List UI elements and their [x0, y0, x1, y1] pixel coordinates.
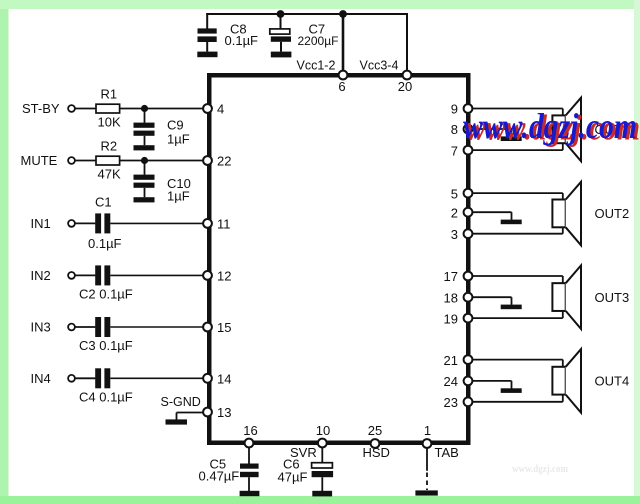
svg-text:IN1: IN1 — [31, 216, 51, 231]
op-amp IC U1 body (quad power amplifier) — [209, 75, 468, 443]
wire pin 19 to speaker OUT3 — [472, 317, 563, 319]
wire IN4 to C4 — [75, 377, 95, 379]
svg-text:8: 8 — [451, 122, 458, 137]
speaker OUT1 — [552, 115, 565, 143]
svg-text:OUT2: OUT2 — [595, 206, 630, 221]
capacitor C3 — [95, 317, 101, 337]
svg-text:16: 16 — [243, 423, 257, 438]
wire pin 2 to ground — [472, 211, 512, 213]
wire R2 to pin 22 — [120, 160, 204, 162]
top green page border — [0, 0, 640, 9]
svg-text:OUT3: OUT3 — [595, 290, 630, 305]
svg-text:0.1µF: 0.1µF — [225, 33, 259, 48]
pin 16 — [245, 439, 254, 448]
svg-text:6: 6 — [338, 79, 345, 94]
svg-text:25: 25 — [368, 423, 382, 438]
svg-text:R2: R2 — [101, 139, 118, 154]
speaker OUT4 — [552, 367, 565, 395]
svg-text:www.dgzj.com: www.dgzj.com — [512, 463, 568, 475]
wire pin 13 to S-GND ground — [177, 412, 205, 414]
svg-text:10K: 10K — [98, 115, 121, 130]
capacitor C8 — [198, 28, 217, 33]
pin 14 — [203, 374, 212, 383]
node junction R2/C10 — [141, 157, 148, 164]
wire top supply bus — [206, 13, 408, 15]
svg-text:3: 3 — [451, 227, 458, 242]
pin 11 — [203, 219, 212, 228]
svg-text:13: 13 — [217, 405, 231, 420]
pin 20 — [403, 71, 412, 80]
svg-text:21: 21 — [444, 353, 458, 368]
ground (OUT1 center tap) — [501, 136, 522, 141]
svg-text:18: 18 — [444, 290, 458, 305]
wire C7 top lead — [280, 14, 282, 29]
node junction R1/C9 — [141, 105, 148, 112]
wire speaker OUT3 vertical tie — [562, 276, 564, 318]
pin 7 — [464, 146, 473, 155]
svg-text:IN2: IN2 — [31, 268, 51, 283]
svg-text:2200µF: 2200µF — [298, 34, 339, 48]
ground S-GND — [166, 419, 188, 424]
pin 9 — [464, 104, 473, 113]
pin 3 — [464, 229, 473, 238]
svg-text:IN4: IN4 — [31, 371, 51, 386]
svg-text:47K: 47K — [98, 167, 121, 182]
svg-text:23: 23 — [444, 395, 458, 410]
ground (OUT4 center tap) — [501, 388, 522, 393]
pin 8 — [464, 125, 473, 134]
capacitor C5 — [240, 464, 259, 469]
wire C8 top lead — [206, 13, 208, 28]
wire from supply bus down to pin 20 — [406, 15, 408, 72]
pin 17 — [464, 272, 473, 281]
pin 15 — [203, 323, 212, 332]
ground (OUT3 center tap) — [501, 305, 522, 310]
wire from supply bus down to pin 6 — [342, 14, 345, 72]
pin 6 — [339, 71, 348, 80]
wire pin 16 to C5 — [248, 447, 250, 464]
bottom green page border — [0, 496, 640, 504]
svg-text:www.dgzj.com: www.dgzj.com — [463, 106, 637, 146]
svg-text:1µF: 1µF — [167, 132, 190, 147]
wire pin 24 to ground — [472, 380, 512, 382]
wire pin 18 to ground — [472, 296, 512, 298]
capacitor C2 — [95, 265, 101, 285]
capacitor C9 — [134, 123, 155, 128]
svg-text:7: 7 — [451, 143, 458, 158]
svg-text:4: 4 — [217, 102, 224, 117]
wire C4 to pin 14 — [110, 377, 204, 379]
pin 24 — [464, 377, 473, 386]
pin 19 — [464, 314, 473, 323]
wire speaker OUT2 vertical tie — [562, 193, 564, 234]
wire C9 top lead — [144, 109, 146, 123]
svg-text:0.47µF: 0.47µF — [199, 468, 240, 483]
svg-text:C4 0.1µF: C4 0.1µF — [79, 390, 133, 405]
svg-text:C2 0.1µF: C2 0.1µF — [79, 287, 133, 302]
wire IN2 to C2 — [75, 274, 95, 276]
pin 18 — [464, 293, 473, 302]
ground (below C6) — [312, 491, 332, 497]
svg-text:17: 17 — [444, 269, 458, 284]
ground (below C7) — [271, 52, 292, 58]
svg-text:ST-BY: ST-BY — [22, 101, 60, 116]
svg-text:TAB: TAB — [435, 445, 459, 460]
node junction feeding pin 6 — [339, 10, 347, 18]
wire pin 1 to ground (part dashed) — [426, 448, 428, 471]
wire IN1 to C1 — [75, 222, 95, 224]
wire pin 17 to speaker OUT3 — [472, 275, 563, 277]
wire MUTE to R2 — [75, 160, 97, 162]
resistor R2 — [96, 156, 120, 165]
pin 25 — [371, 439, 380, 448]
svg-text:OUT4: OUT4 — [595, 374, 630, 389]
svg-text:19: 19 — [444, 311, 458, 326]
wire IN3 to C3 — [75, 326, 95, 328]
svg-text:22: 22 — [217, 154, 231, 169]
pin 21 — [464, 355, 473, 364]
wire C2 to pin 12 — [110, 274, 204, 276]
wire pin 21 to speaker OUT4 — [472, 359, 563, 361]
wire pin 23 to speaker OUT4 — [472, 401, 563, 403]
svg-text:Vcc3-4: Vcc3-4 — [360, 59, 399, 73]
svg-text:10: 10 — [316, 423, 330, 438]
svg-text:R1: R1 — [101, 87, 118, 102]
pin 13 — [203, 408, 212, 417]
pin 22 — [203, 156, 212, 165]
right green page border — [634, 0, 640, 504]
svg-text:C1: C1 — [95, 195, 112, 210]
wire C1 to pin 11 — [110, 222, 204, 224]
svg-text:24: 24 — [444, 374, 458, 389]
svg-text:Vcc1-2: Vcc1-2 — [297, 59, 336, 73]
svg-text:15: 15 — [217, 320, 231, 335]
svg-text:11: 11 — [217, 216, 231, 231]
svg-text:9: 9 — [451, 102, 458, 117]
svg-text:1µF: 1µF — [167, 189, 190, 204]
wire speaker OUT1 vertical tie — [562, 109, 564, 151]
node junction at C7 on supply bus — [277, 10, 285, 18]
resistor R1 — [96, 104, 120, 113]
svg-text:2: 2 — [451, 205, 458, 220]
wire pin 5 to speaker OUT2 — [472, 192, 563, 194]
wire C3 to pin 15 — [110, 326, 204, 328]
wire pin 8 to ground — [472, 128, 512, 130]
ground (below C8) — [197, 52, 217, 58]
wire pin 10 to C6 — [321, 447, 323, 463]
speaker OUT3 — [552, 283, 565, 311]
capacitor C4 — [95, 368, 101, 388]
pin 1 — [423, 439, 432, 448]
capacitor C1 — [95, 213, 101, 233]
capacitor C6 (electrolytic) — [312, 463, 333, 468]
svg-text:0.1µF: 0.1µF — [88, 236, 122, 251]
wire R1 to pin 4 — [120, 108, 204, 110]
svg-text:S-GND: S-GND — [161, 395, 201, 409]
capacitor C10 — [134, 175, 155, 180]
ground (TAB) — [415, 490, 437, 495]
pin 5 — [464, 189, 473, 198]
svg-text:1: 1 — [424, 423, 431, 438]
pin 2 — [464, 208, 473, 217]
pin 4 — [203, 104, 212, 113]
svg-text:IN3: IN3 — [31, 320, 51, 335]
ground (OUT2 center tap) — [501, 220, 522, 225]
pin 12 — [203, 271, 212, 280]
svg-text:12: 12 — [217, 268, 231, 283]
ground (below C5) — [240, 491, 260, 496]
wire pin 9 to speaker OUT1 — [472, 108, 563, 110]
wire speaker OUT4 vertical tie — [562, 360, 564, 402]
svg-text:HSD: HSD — [363, 445, 390, 460]
pin 10 — [318, 439, 327, 448]
svg-text:47µF: 47µF — [278, 469, 308, 484]
ground (below C9) — [134, 145, 155, 150]
svg-text:14: 14 — [217, 371, 231, 386]
svg-text:5: 5 — [451, 186, 458, 201]
wire C10 top lead — [144, 161, 146, 175]
svg-text:C9: C9 — [167, 118, 184, 133]
wire pin 3 to speaker OUT2 — [472, 233, 563, 235]
capacitor C7 (electrolytic) — [270, 29, 290, 34]
ground (below C10) — [134, 197, 155, 202]
wire ST-BY to R1 — [75, 108, 97, 110]
left green page border — [0, 0, 9, 504]
wire pin 7 to speaker OUT1 — [472, 149, 563, 151]
svg-text:C3 0.1µF: C3 0.1µF — [79, 338, 133, 353]
speaker OUT2 — [552, 200, 565, 228]
pin 23 — [464, 397, 473, 406]
svg-text:MUTE: MUTE — [21, 153, 58, 168]
svg-text:20: 20 — [398, 79, 412, 94]
